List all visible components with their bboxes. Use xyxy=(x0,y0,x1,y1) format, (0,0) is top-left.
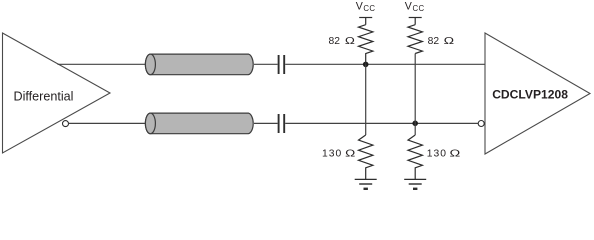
ground left bar 3 xyxy=(364,188,368,190)
wire: left rail node A down across bottom line to R3 xyxy=(365,64,367,135)
ground right bar 1 xyxy=(404,178,426,180)
ground right bar 3 xyxy=(413,188,417,190)
ground right bar 2 xyxy=(409,183,422,185)
wire: U1 noninverting output to transmission line T1 xyxy=(58,63,148,65)
resistor R2 82 ohm right pull-up xyxy=(408,25,422,54)
svg-text:82: 82 xyxy=(428,36,440,47)
wire: C1 to CDCLVP1208 noninverting input through node A xyxy=(285,63,485,65)
junction dot node B xyxy=(412,121,418,127)
transmission line T1 body xyxy=(145,54,253,75)
svg-text:82: 82 xyxy=(329,36,341,47)
VCC symbol left: T bar xyxy=(359,17,372,19)
inversion bubble on U1 output xyxy=(63,121,69,127)
wire: right rail R2 down across top line to node B xyxy=(414,54,416,136)
svg-text:Ω: Ω xyxy=(450,147,461,159)
svg-text:130: 130 xyxy=(322,148,342,159)
receiver U2 triangle CDCLVP1208 xyxy=(485,33,590,154)
VCC symbol left: stub xyxy=(365,18,367,25)
wire: T1 to capacitor C1 xyxy=(254,63,278,65)
driver U1 triangle xyxy=(3,33,111,153)
svg-text:CC: CC xyxy=(363,4,375,13)
svg-text:CC: CC xyxy=(413,4,425,13)
junction dot node A xyxy=(363,62,369,68)
capacitor C1 plate 2 xyxy=(283,55,285,74)
svg-text:Differential: Differential xyxy=(14,90,74,104)
resistor R1 82 ohm left pull-up xyxy=(359,25,373,65)
VCC symbol right: T bar xyxy=(409,17,422,19)
capacitor C1 plate 1 xyxy=(278,55,280,74)
inversion bubble on U2 input xyxy=(478,121,484,127)
resistor R3 130 ohm left pull-down xyxy=(359,135,373,179)
wire: T2 to capacitor C2 xyxy=(254,122,278,124)
ground left bar 2 xyxy=(359,183,372,185)
ground left bar 1 xyxy=(355,178,377,180)
wire: C2 to CDCLVP1208 inverting input through node B xyxy=(285,122,478,124)
capacitor C2 plate 1 xyxy=(278,114,280,133)
svg-text:Ω: Ω xyxy=(444,35,454,47)
svg-text:Ω: Ω xyxy=(345,35,355,47)
capacitor C2 plate 2 xyxy=(283,114,285,133)
transmission line T1 end ellipse xyxy=(145,54,155,75)
wire: U1 inverting output to transmission line T2 xyxy=(68,122,147,124)
transmission line T2 body xyxy=(145,113,253,134)
svg-text:V: V xyxy=(405,0,413,12)
svg-text:Ω: Ω xyxy=(345,147,355,159)
resistor R4 130 ohm right pull-down xyxy=(408,135,422,179)
svg-text:130: 130 xyxy=(427,148,447,159)
VCC symbol right: stub xyxy=(414,18,416,25)
transmission line T2 end ellipse xyxy=(145,113,155,134)
svg-text:CDCLVP1208: CDCLVP1208 xyxy=(492,88,568,102)
